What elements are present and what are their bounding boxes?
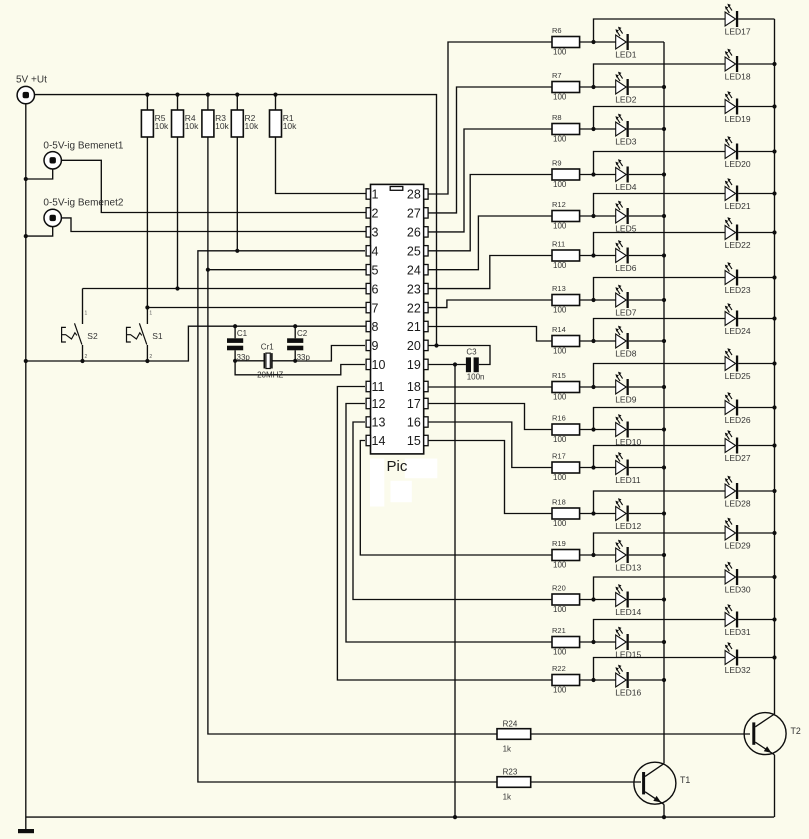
pin 9 bbox=[366, 339, 378, 353]
resistor R9 100 bbox=[552, 159, 580, 189]
wire R22 to LED16 bbox=[580, 679, 616, 681]
wire branch to LED21 bbox=[594, 194, 726, 217]
svg-text:4: 4 bbox=[372, 245, 379, 259]
wire R23 to T1 base bbox=[531, 781, 641, 783]
LED LED27 bbox=[725, 430, 751, 463]
wire branch to LED27 bbox=[594, 446, 726, 468]
resistor R3 10k bbox=[202, 95, 230, 137]
wire R13 to LED7 bbox=[580, 299, 616, 301]
svg-text:10k: 10k bbox=[283, 121, 297, 131]
pin 11 bbox=[366, 380, 384, 394]
wire pin 25 to R9 bbox=[428, 175, 552, 251]
LED LED19 bbox=[725, 91, 751, 124]
svg-text:100: 100 bbox=[553, 686, 567, 695]
svg-text:R8: R8 bbox=[552, 113, 562, 122]
LED LED17 bbox=[725, 4, 751, 37]
wire R15 to LED9 bbox=[580, 386, 616, 388]
wire +5V top rail to pin 20 bbox=[35, 95, 437, 346]
wire LED15 cathode bbox=[629, 641, 664, 643]
wire Bemenet2 ground tap bbox=[26, 227, 53, 237]
junction bus2 LED24 bbox=[772, 316, 776, 320]
svg-text:13: 13 bbox=[372, 416, 386, 430]
svg-text:LED3: LED3 bbox=[615, 136, 637, 146]
svg-text:LED21: LED21 bbox=[725, 201, 751, 211]
wire pin 27 to R7 bbox=[428, 87, 552, 213]
ground symbol bbox=[18, 829, 34, 833]
junction bus1 LED9 bbox=[662, 385, 666, 389]
wire left ground rail bbox=[25, 104, 27, 829]
junction bus2 LED21 bbox=[772, 191, 776, 195]
wire Bemenet2 to pin 3 bbox=[61, 218, 366, 232]
svg-text:LED19: LED19 bbox=[725, 114, 751, 124]
pin 24 bbox=[407, 263, 428, 277]
svg-text:LED2: LED2 bbox=[615, 94, 637, 104]
LED LED1 bbox=[615, 27, 637, 60]
LED LED32 bbox=[725, 642, 751, 675]
wire LED6 cathode bbox=[629, 255, 664, 257]
LED LED29 bbox=[725, 518, 751, 551]
LED LED21 bbox=[725, 178, 751, 211]
wire T2 emitter to ground bbox=[774, 755, 776, 817]
junction top rail R1 bbox=[273, 93, 277, 97]
svg-text:8: 8 bbox=[372, 320, 379, 334]
resistor R16 100 bbox=[552, 414, 580, 444]
wire Bemenet1 ground tap bbox=[26, 169, 53, 179]
resistor R24 1k bbox=[497, 719, 531, 753]
pin 23 bbox=[407, 282, 428, 296]
pin 25 bbox=[407, 245, 428, 259]
junction bus2 LED31 bbox=[772, 617, 776, 621]
resistor R18 100 bbox=[552, 498, 580, 528]
svg-text:LED8: LED8 bbox=[615, 348, 637, 358]
wire branch to LED17 bbox=[594, 19, 726, 42]
wire branch to LED24 bbox=[594, 319, 726, 342]
junction S1 bottom bbox=[145, 359, 149, 363]
wire R11 to LED6 bbox=[580, 255, 616, 257]
resistor R22 100 bbox=[552, 664, 580, 694]
svg-text:24: 24 bbox=[407, 263, 421, 277]
junction top rail R5 bbox=[145, 93, 149, 97]
pin 27 bbox=[407, 207, 428, 221]
svg-text:100: 100 bbox=[553, 347, 567, 356]
junction bus2 LED19 bbox=[772, 104, 776, 108]
pin 10 bbox=[366, 358, 385, 372]
wire S2 top to pin 6 bbox=[83, 288, 367, 290]
input connector Bemenet1 label bbox=[43, 141, 123, 152]
resistor R14 100 bbox=[552, 325, 580, 355]
wire branch to LED28 bbox=[594, 491, 726, 514]
junction bus1 LED7 bbox=[662, 298, 666, 302]
wire branch to LED32 bbox=[594, 658, 726, 681]
junction left rail Bemenet2 bbox=[24, 234, 28, 238]
wire crystal right bbox=[272, 360, 295, 362]
junction bus1 LED13 bbox=[662, 553, 666, 557]
LED LED22 bbox=[725, 217, 751, 250]
junction node LED5 anode bbox=[591, 214, 595, 218]
LED LED18 bbox=[725, 49, 751, 82]
junction top rail R4 bbox=[175, 93, 179, 97]
junction bus1 LED5 bbox=[662, 214, 666, 218]
junction node LED16 anode bbox=[591, 678, 595, 682]
junction bus1 LED16 bbox=[662, 678, 666, 682]
pin 26 bbox=[407, 226, 428, 240]
svg-text:22: 22 bbox=[407, 301, 421, 315]
wire LED25 cathode bbox=[738, 363, 774, 365]
LED LED31 bbox=[725, 604, 751, 637]
svg-text:18: 18 bbox=[407, 380, 421, 394]
svg-text:10k: 10k bbox=[215, 121, 229, 131]
pin 15 bbox=[407, 434, 428, 448]
svg-text:2: 2 bbox=[372, 207, 379, 221]
svg-text:16: 16 bbox=[407, 416, 421, 430]
svg-text:R6: R6 bbox=[552, 26, 562, 35]
svg-text:9: 9 bbox=[372, 339, 379, 353]
wire LED2 cathode bbox=[629, 86, 664, 88]
resistor R12 100 bbox=[552, 200, 580, 230]
junction top rail R3 bbox=[206, 93, 210, 97]
svg-text:11: 11 bbox=[372, 380, 385, 394]
svg-text:R12: R12 bbox=[552, 200, 566, 209]
pin 17 bbox=[407, 397, 428, 411]
junction node LED7 anode bbox=[591, 298, 595, 302]
svg-text:20: 20 bbox=[407, 339, 421, 353]
svg-text:100n: 100n bbox=[467, 373, 485, 382]
wire LED29 cathode bbox=[738, 532, 774, 534]
wire R8 to LED3 bbox=[580, 128, 616, 130]
svg-text:Pic: Pic bbox=[387, 458, 408, 475]
svg-text:19: 19 bbox=[407, 358, 421, 372]
wire LED18 cathode bbox=[738, 63, 774, 65]
wire pin 17 to R16 bbox=[428, 404, 552, 430]
LED LED5 bbox=[615, 201, 637, 234]
svg-text:10: 10 bbox=[372, 358, 386, 372]
svg-text:3: 3 bbox=[372, 226, 379, 240]
junction C2 top bbox=[293, 324, 297, 328]
wire pin 16 to R17 bbox=[428, 422, 552, 468]
junction bus2 LED26 bbox=[772, 405, 776, 409]
wire branch to LED31 bbox=[594, 620, 726, 643]
junction bus1 LED14 bbox=[662, 597, 666, 601]
junction node LED13 anode bbox=[591, 553, 595, 557]
junction S2 bottom bbox=[80, 359, 84, 363]
wire LED14 cathode bbox=[629, 599, 664, 601]
pin 8 bbox=[366, 320, 378, 334]
LED LED30 bbox=[725, 562, 751, 595]
pin 2 bbox=[366, 207, 378, 221]
PIC notch bbox=[390, 187, 403, 191]
LED LED26 bbox=[725, 392, 751, 425]
svg-text:R20: R20 bbox=[552, 584, 566, 593]
wire switch ground rail to pin 8 bbox=[26, 326, 366, 361]
svg-text:2: 2 bbox=[85, 354, 88, 360]
junction ground rail left bbox=[24, 359, 28, 363]
LED LED6 bbox=[615, 240, 637, 273]
junction bus2 LED20 bbox=[772, 149, 776, 153]
junction bus1 LED4 bbox=[662, 172, 666, 176]
resistor R17 100 bbox=[552, 452, 580, 482]
LED LED8 bbox=[615, 326, 637, 359]
capacitor C1 33p bbox=[227, 326, 250, 362]
pin 7 bbox=[366, 301, 378, 315]
resistor R11 100 bbox=[552, 240, 580, 270]
junction bus1 LED2 bbox=[662, 85, 666, 89]
junction R4 pin 6 wire bbox=[175, 286, 179, 290]
junction node LED14 anode bbox=[591, 597, 595, 601]
svg-text:100: 100 bbox=[553, 393, 567, 402]
svg-text:LED31: LED31 bbox=[725, 627, 751, 637]
svg-text:LED9: LED9 bbox=[615, 394, 637, 404]
wire R3 bottom through pin 5 node down to R24 bbox=[208, 137, 497, 734]
svg-text:100: 100 bbox=[553, 48, 567, 57]
wire pin 19 to C3 bbox=[428, 364, 466, 366]
junction bus1 LED6 bbox=[662, 253, 666, 257]
input connector Bemenet1 bbox=[44, 152, 61, 169]
svg-text:1: 1 bbox=[85, 311, 88, 317]
wire R5 bottom to S1 top / pin 7 node bbox=[146, 137, 148, 308]
wire pin 22 to R13 bbox=[428, 300, 552, 308]
svg-text:100: 100 bbox=[553, 561, 567, 570]
junction pin20 +5V bbox=[434, 343, 438, 347]
svg-text:1k: 1k bbox=[503, 744, 512, 753]
watermark patch 2 bbox=[405, 459, 438, 479]
pin 22 bbox=[407, 301, 428, 315]
junction bus2 LED25 bbox=[772, 361, 776, 365]
pin 18 bbox=[407, 380, 428, 394]
svg-text:C2: C2 bbox=[297, 329, 308, 338]
LED LED9 bbox=[615, 372, 637, 405]
pin 14 bbox=[366, 434, 385, 448]
wire LED3 cathode bbox=[629, 128, 664, 130]
wire pin 20 VDD bbox=[428, 346, 490, 365]
pin 6 bbox=[366, 282, 378, 296]
wire bottom ground rail bbox=[26, 816, 774, 818]
svg-text:R9: R9 bbox=[552, 159, 562, 168]
transistor T1 bbox=[634, 762, 690, 804]
wire LED21 cathode bbox=[738, 193, 774, 195]
junction C1 top bbox=[233, 324, 237, 328]
svg-text:100: 100 bbox=[553, 648, 567, 657]
svg-text:LED25: LED25 bbox=[725, 371, 751, 381]
wire R14 to LED8 bbox=[580, 340, 616, 342]
svg-text:5: 5 bbox=[372, 263, 379, 277]
junction T1 emitter ground bbox=[662, 815, 666, 819]
svg-text:R7: R7 bbox=[552, 71, 562, 80]
svg-text:S1: S1 bbox=[152, 331, 163, 341]
resistor R4 10k bbox=[172, 95, 200, 137]
crystal Cr1 20MHZ bbox=[257, 343, 283, 380]
svg-text:S2: S2 bbox=[87, 331, 98, 341]
svg-text:0-5V-ig Bemenet1: 0-5V-ig Bemenet1 bbox=[43, 141, 123, 152]
svg-text:R11: R11 bbox=[552, 240, 565, 249]
wire branch to LED26 bbox=[594, 408, 726, 430]
junction C1 bottom bbox=[233, 359, 237, 363]
wire R4 bottom to pin 6 node bbox=[177, 137, 179, 289]
transistor T2 bbox=[744, 713, 801, 755]
wire pin 15 to R18 bbox=[428, 441, 552, 514]
LED LED7 bbox=[615, 285, 637, 318]
svg-text:LED7: LED7 bbox=[615, 307, 637, 317]
svg-text:R23: R23 bbox=[503, 767, 518, 776]
resistor R7 100 bbox=[552, 71, 580, 101]
pin 16 bbox=[407, 416, 428, 430]
junction node LED4 anode bbox=[591, 172, 595, 176]
svg-text:5V +Ut: 5V +Ut bbox=[16, 75, 47, 86]
svg-text:R15: R15 bbox=[552, 371, 566, 380]
pin 3 bbox=[366, 226, 378, 240]
svg-text:100: 100 bbox=[553, 605, 567, 614]
svg-text:7: 7 bbox=[372, 301, 379, 315]
svg-text:12: 12 bbox=[372, 397, 386, 411]
svg-text:15: 15 bbox=[407, 434, 421, 448]
wire branch to LED20 bbox=[594, 152, 726, 175]
LED LED12 bbox=[615, 498, 641, 531]
resistor R21 100 bbox=[552, 626, 580, 656]
LED LED24 bbox=[725, 303, 751, 336]
junction R5 S1 pin 7 wire bbox=[145, 305, 149, 309]
wire branch to LED23 bbox=[594, 278, 726, 301]
wire LED4 cathode bbox=[629, 174, 664, 176]
wire LED1 cathode bbox=[629, 41, 664, 43]
junction bus1 LED15 bbox=[662, 640, 666, 644]
svg-text:C3: C3 bbox=[466, 348, 477, 357]
junction bus1 LED12 bbox=[662, 511, 666, 515]
wire pin 19 ground drop bbox=[454, 365, 456, 818]
pin 4 bbox=[366, 245, 378, 259]
wire R1 bottom to pin 1 bbox=[276, 137, 367, 194]
LED LED25 bbox=[725, 348, 751, 381]
wire R20 to LED14 bbox=[580, 599, 616, 601]
svg-text:LED29: LED29 bbox=[725, 540, 751, 550]
wire LED10 cathode bbox=[629, 429, 664, 431]
LED LED15 bbox=[615, 627, 641, 660]
svg-text:1: 1 bbox=[149, 311, 152, 317]
svg-text:LED14: LED14 bbox=[615, 607, 641, 617]
svg-text:Cr1: Cr1 bbox=[261, 343, 274, 352]
pin 13 bbox=[366, 416, 385, 430]
junction node LED3 anode bbox=[591, 127, 595, 131]
junction node LED10 anode bbox=[591, 427, 595, 431]
svg-text:LED22: LED22 bbox=[725, 240, 751, 250]
wire LED12 cathode bbox=[629, 513, 664, 515]
svg-text:LED17: LED17 bbox=[725, 26, 751, 36]
capacitor C3 100n bbox=[466, 348, 485, 382]
svg-text:0-5V-ig Bemenet2: 0-5V-ig Bemenet2 bbox=[43, 198, 123, 209]
wire pin 13 to R20 bbox=[353, 422, 552, 600]
capacitor C2 33p bbox=[287, 326, 310, 362]
svg-text:LED13: LED13 bbox=[615, 562, 641, 572]
svg-text:LED28: LED28 bbox=[725, 498, 751, 508]
wire LED9 cathode bbox=[629, 386, 664, 388]
svg-text:T2: T2 bbox=[791, 726, 801, 736]
resistor R23 1k bbox=[497, 767, 531, 801]
svg-text:LED27: LED27 bbox=[725, 453, 751, 463]
wire LED19 cathode bbox=[738, 106, 774, 108]
wire LED22 cathode bbox=[738, 232, 774, 234]
svg-text:R16: R16 bbox=[552, 414, 566, 423]
wire T1 emitter to ground bbox=[663, 804, 665, 817]
wire LED13 cathode bbox=[629, 554, 664, 556]
wire LED20 cathode bbox=[738, 151, 774, 153]
wire LED24 cathode bbox=[738, 318, 774, 320]
junction bus1 LED10 bbox=[662, 427, 666, 431]
svg-text:LED30: LED30 bbox=[725, 584, 751, 594]
wire pin 9 to C2 bottom bbox=[295, 346, 365, 362]
wire branch to LED22 bbox=[594, 233, 726, 256]
junction left rail Bemenet1 bbox=[24, 177, 28, 181]
wire LED27 cathode bbox=[738, 445, 774, 447]
svg-text:25: 25 bbox=[407, 245, 421, 259]
wire cathode bus LED1-16 to T1 bbox=[663, 42, 665, 763]
svg-text:LED16: LED16 bbox=[615, 687, 641, 697]
wire branch to LED19 bbox=[594, 107, 726, 130]
wire pin 21 to R14 bbox=[428, 327, 552, 342]
wire pin 11 to R22 bbox=[337, 387, 552, 681]
wire LED11 cathode bbox=[629, 467, 664, 469]
svg-text:T1: T1 bbox=[680, 775, 690, 785]
svg-text:14: 14 bbox=[372, 434, 386, 448]
wire crystal left bbox=[235, 360, 264, 362]
wire R9 to LED4 bbox=[580, 174, 616, 176]
junction C2 bottom bbox=[293, 359, 297, 363]
wire R18 to LED12 bbox=[580, 513, 616, 515]
wire LED30 cathode bbox=[738, 576, 774, 578]
junction bus2 LED29 bbox=[772, 531, 776, 535]
svg-text:R14: R14 bbox=[552, 325, 566, 334]
wire branch to LED30 bbox=[594, 577, 726, 600]
pin 21 bbox=[407, 320, 428, 334]
LED LED2 bbox=[615, 72, 637, 105]
svg-text:27: 27 bbox=[407, 207, 421, 221]
LED LED13 bbox=[615, 540, 641, 573]
wire R2 bottom to pin 4 node bbox=[236, 137, 238, 251]
wire pin 5 node bbox=[208, 269, 366, 271]
wire LED23 cathode bbox=[738, 277, 774, 279]
wire branch to LED18 bbox=[594, 64, 726, 87]
wire LED8 cathode bbox=[629, 340, 664, 342]
svg-text:100: 100 bbox=[553, 180, 567, 189]
svg-text:R18: R18 bbox=[552, 498, 566, 507]
svg-text:10k: 10k bbox=[155, 121, 169, 131]
svg-text:100: 100 bbox=[553, 435, 567, 444]
svg-text:17: 17 bbox=[407, 397, 421, 411]
svg-text:26: 26 bbox=[407, 226, 421, 240]
junction node LED11 anode bbox=[591, 465, 595, 469]
svg-text:LED20: LED20 bbox=[725, 159, 751, 169]
junction ground rail pin19 bbox=[453, 815, 457, 819]
junction node LED1 anode bbox=[591, 40, 595, 44]
junction bus1 LED3 bbox=[662, 127, 666, 131]
svg-text:100: 100 bbox=[553, 261, 567, 270]
wire S1 top to pin 7 bbox=[147, 307, 366, 309]
pin 12 bbox=[366, 397, 385, 411]
junction bus2 LED22 bbox=[772, 230, 776, 234]
pin 20 bbox=[407, 339, 428, 353]
svg-text:R24: R24 bbox=[503, 719, 518, 728]
svg-text:LED4: LED4 bbox=[615, 182, 637, 192]
resistor R1 10k bbox=[270, 95, 298, 137]
svg-text:R22: R22 bbox=[552, 664, 566, 673]
wire pin 4 to R23 net bbox=[198, 251, 497, 782]
svg-text:100: 100 bbox=[553, 306, 567, 315]
LED LED20 bbox=[725, 136, 751, 169]
switch S1 bbox=[127, 308, 163, 362]
resistor R13 100 bbox=[552, 284, 580, 314]
wire R12 to LED5 bbox=[580, 215, 616, 217]
svg-text:100: 100 bbox=[553, 222, 567, 231]
svg-text:10k: 10k bbox=[185, 121, 199, 131]
junction R3 pin5 bbox=[206, 268, 210, 272]
svg-text:LED6: LED6 bbox=[615, 263, 637, 273]
